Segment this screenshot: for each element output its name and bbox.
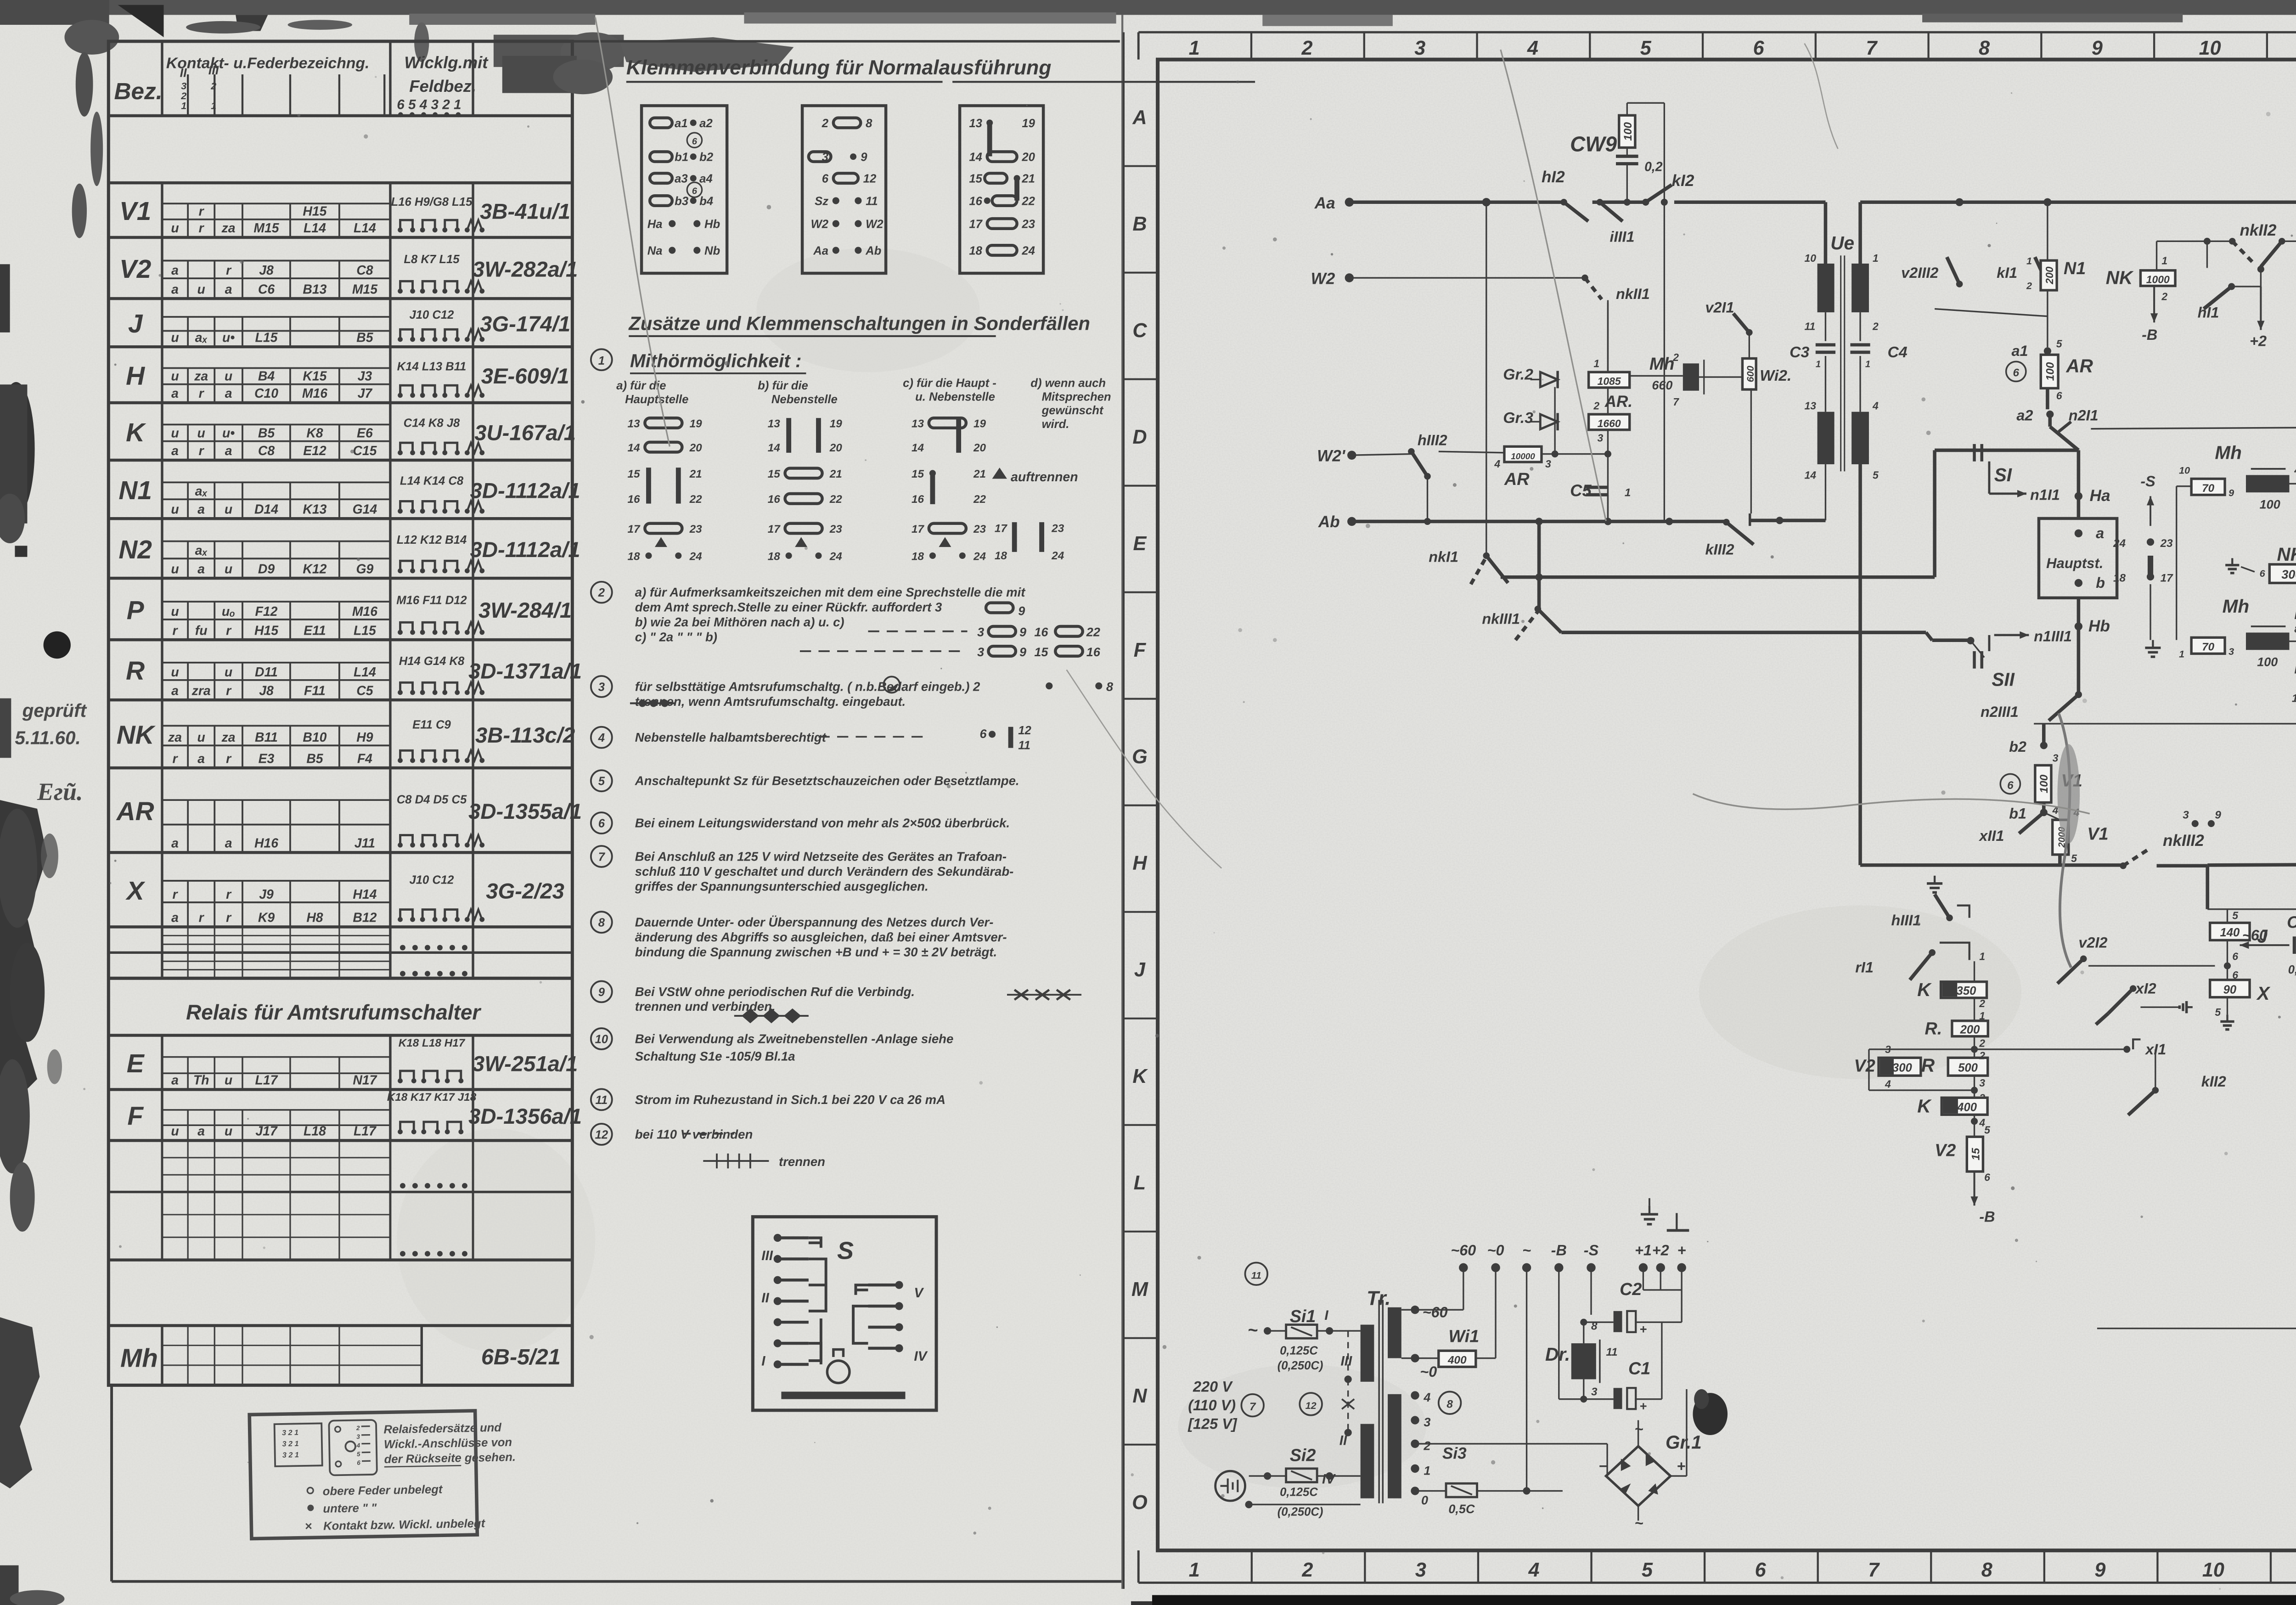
- svg-text:16: 16: [1034, 625, 1048, 639]
- svg-text:10: 10: [2202, 1559, 2224, 1581]
- svg-text:2: 2: [356, 1425, 360, 1431]
- svg-text:Relaisfedersätze und: Relaisfedersätze und: [383, 1421, 502, 1436]
- svg-text:G9: G9: [356, 562, 374, 576]
- svg-text:C: C: [1132, 320, 1147, 342]
- svg-text:5: 5: [357, 1451, 360, 1458]
- svg-text:J3: J3: [358, 369, 372, 384]
- svg-text:NK: NK: [2277, 544, 2296, 565]
- svg-text:1: 1: [1865, 359, 1870, 369]
- svg-text:3D-1112a/1: 3D-1112a/1: [470, 479, 580, 503]
- svg-text:AR: AR: [1504, 470, 1530, 489]
- svg-text:0,125C: 0,125C: [1280, 1486, 1318, 1498]
- svg-text:10: 10: [2199, 37, 2221, 59]
- svg-text:B5: B5: [306, 751, 323, 766]
- svg-text:der Rückseite gesehen.: der Rückseite gesehen.: [384, 1451, 516, 1466]
- svg-text:11: 11: [1251, 1270, 1261, 1281]
- svg-text:1: 1: [2026, 255, 2032, 266]
- svg-text:300: 300: [1892, 1062, 1913, 1075]
- svg-text:fu: fu: [195, 623, 208, 638]
- svg-text:15: 15: [628, 468, 641, 480]
- svg-text:+1: +1: [1635, 1242, 1652, 1258]
- svg-text:4: 4: [598, 732, 605, 744]
- svg-text:H15: H15: [254, 623, 279, 638]
- svg-text:70: 70: [2202, 482, 2215, 495]
- svg-text:Aa: Aa: [1314, 194, 1335, 212]
- svg-text:a: a: [225, 386, 232, 401]
- svg-text:9: 9: [2228, 487, 2234, 498]
- svg-text:9: 9: [1019, 625, 1026, 639]
- svg-text:a: a: [171, 836, 179, 851]
- svg-text:Bei Anschluß an 125 V wird N: Bei Anschluß an 125 V wird Netzseite des…: [635, 849, 1007, 863]
- svg-text:Aa: Aa: [813, 244, 828, 257]
- svg-text:90: 90: [2223, 983, 2237, 996]
- svg-text:a: a: [197, 502, 205, 517]
- svg-text:5: 5: [598, 775, 605, 788]
- svg-text:24: 24: [2113, 537, 2126, 550]
- svg-text:Ha: Ha: [2090, 487, 2110, 505]
- svg-text:24: 24: [1051, 550, 1064, 562]
- svg-text:K: K: [1917, 1096, 1932, 1117]
- svg-text:Hauptst.: Hauptst.: [2046, 555, 2103, 571]
- svg-text:(0,250C): (0,250C): [1277, 1359, 1323, 1372]
- svg-text:rI1: rI1: [1855, 959, 1874, 976]
- svg-text:b) wie 2a bei Mithören nach: b) wie 2a bei Mithören nach a) u. c): [635, 615, 844, 629]
- svg-text:kII2: kII2: [2201, 1073, 2226, 1090]
- svg-text:H: H: [126, 362, 145, 391]
- svg-text:IV: IV: [914, 1349, 928, 1364]
- svg-text:SII: SII: [1992, 669, 2015, 690]
- svg-text:a1: a1: [2012, 343, 2028, 359]
- svg-text:u: u: [171, 426, 179, 441]
- svg-text:19: 19: [830, 417, 843, 430]
- svg-text:3: 3: [1591, 1386, 1598, 1398]
- svg-text:5: 5: [1984, 1124, 1991, 1136]
- svg-text:bei 110 V ver: bei 110 V verbinden: [635, 1127, 753, 1141]
- svg-text:3: 3: [977, 625, 984, 639]
- svg-text:19: 19: [1022, 117, 1035, 130]
- svg-text:D: D: [1132, 426, 1147, 448]
- svg-text:4: 4: [1494, 458, 1500, 470]
- svg-text:10: 10: [595, 1033, 608, 1046]
- svg-text:1000: 1000: [2146, 273, 2170, 285]
- svg-text:400: 400: [1447, 1354, 1467, 1367]
- svg-text:u: u: [171, 369, 179, 384]
- svg-text:6: 6: [980, 727, 987, 741]
- svg-text:1: 1: [1189, 1559, 1200, 1581]
- svg-text:u: u: [171, 221, 179, 236]
- svg-text:J10 C12: J10 C12: [410, 309, 454, 321]
- svg-text:(0,250C): (0,250C): [1277, 1506, 1323, 1519]
- svg-text:L14: L14: [354, 221, 376, 236]
- svg-text:18: 18: [2113, 572, 2126, 585]
- svg-text:22: 22: [973, 493, 986, 506]
- svg-text:Dauernde Unter- oder Überspa: Dauernde Unter- oder Überspannung des Ne…: [635, 915, 994, 929]
- svg-text:J: J: [1134, 959, 1146, 981]
- svg-text:-S: -S: [2140, 473, 2155, 490]
- svg-text:3E-609/1: 3E-609/1: [481, 364, 569, 389]
- svg-text:14: 14: [969, 151, 982, 164]
- svg-text:+2: +2: [1652, 1242, 1669, 1258]
- svg-text:1: 1: [211, 100, 216, 112]
- svg-text:C10: C10: [254, 386, 278, 401]
- svg-text:3: 3: [2183, 809, 2189, 822]
- svg-text:8: 8: [1106, 680, 1113, 693]
- svg-text:geprüft: geprüft: [22, 700, 87, 721]
- svg-text:12: 12: [863, 173, 877, 186]
- svg-text:r: r: [226, 887, 232, 902]
- svg-text:V1: V1: [119, 197, 151, 226]
- svg-text:G14: G14: [353, 502, 377, 517]
- svg-text:21: 21: [689, 468, 702, 480]
- svg-text:NK: NK: [2106, 267, 2134, 288]
- svg-text:2: 2: [1979, 997, 1985, 1009]
- svg-text:3D-1112a/1: 3D-1112a/1: [470, 538, 580, 562]
- svg-text:17: 17: [912, 523, 925, 535]
- svg-text:19: 19: [974, 417, 986, 430]
- svg-text:V1: V1: [2087, 825, 2108, 844]
- svg-text:14: 14: [912, 442, 924, 454]
- svg-text:17: 17: [628, 523, 641, 535]
- svg-text:a1: a1: [675, 117, 688, 130]
- svg-text:21: 21: [1021, 173, 1035, 186]
- svg-text:2: 2: [1979, 1037, 1985, 1049]
- svg-text:E12: E12: [303, 444, 326, 458]
- svg-text:N1: N1: [118, 476, 152, 505]
- svg-text:18: 18: [912, 550, 924, 563]
- svg-text:H15: H15: [303, 204, 327, 219]
- svg-text:Mitsprechen: Mitsprechen: [1042, 390, 1111, 403]
- svg-text:NK: NK: [117, 721, 156, 750]
- svg-text:6: 6: [357, 1459, 360, 1466]
- svg-text:9: 9: [1018, 604, 1025, 618]
- svg-text:I: I: [1324, 1308, 1328, 1323]
- svg-text:24: 24: [829, 550, 843, 563]
- svg-text:a: a: [225, 282, 232, 297]
- svg-text:17: 17: [2161, 572, 2174, 585]
- svg-text:griffes der Spannungsuntersc: griffes der Spannungsunterschied ausgegl…: [635, 879, 929, 893]
- svg-text:F12: F12: [255, 604, 278, 619]
- svg-text:Zusätze und Klemmenschaltungen: Zusätze und Klemmenschaltungen in Sonder…: [628, 312, 1090, 334]
- svg-text:B13: B13: [303, 282, 326, 297]
- svg-text:Wickl.-Anschlüsse von: Wickl.-Anschlüsse von: [384, 1436, 512, 1451]
- svg-text:H: H: [1132, 852, 1147, 874]
- svg-text:u: u: [171, 330, 179, 345]
- svg-text:3B-41u/1: 3B-41u/1: [480, 199, 570, 224]
- svg-text:100: 100: [1622, 122, 1634, 141]
- svg-text:a: a: [171, 263, 179, 278]
- svg-text:~60: ~60: [2242, 927, 2268, 943]
- svg-text:C6: C6: [258, 282, 275, 297]
- svg-text:N17: N17: [353, 1073, 377, 1088]
- svg-text:8: 8: [1981, 1559, 1992, 1581]
- svg-text:Dr.: Dr.: [1545, 1344, 1570, 1365]
- svg-text:4: 4: [1423, 1391, 1430, 1404]
- svg-text:~: ~: [1522, 1242, 1531, 1258]
- svg-text:Mh: Mh: [2215, 442, 2241, 463]
- svg-text:11: 11: [1018, 739, 1030, 752]
- svg-text:5.11.60.: 5.11.60.: [15, 727, 80, 749]
- svg-text:7: 7: [1249, 1401, 1256, 1413]
- svg-text:Klemmenverbindung für Normal: Klemmenverbindung für Normalausführung: [626, 56, 1052, 79]
- svg-text:Si1: Si1: [1290, 1307, 1316, 1326]
- svg-text:-S: -S: [1584, 1242, 1599, 1258]
- svg-text:v2III2: v2III2: [1901, 265, 1938, 281]
- svg-text:16: 16: [1086, 645, 1101, 659]
- svg-text:L12 K12 B14: L12 K12 B14: [397, 534, 467, 546]
- svg-text:3 2 1: 3 2 1: [282, 1440, 298, 1448]
- svg-text:a: a: [171, 386, 179, 401]
- svg-text:L16 H9/G8 L15: L16 H9/G8 L15: [391, 196, 473, 208]
- svg-text:6: 6: [2007, 779, 2014, 792]
- svg-text:200: 200: [1960, 1024, 1981, 1036]
- svg-text:c) für die Haupt -: c) für die Haupt -: [903, 377, 996, 390]
- svg-text:B5: B5: [356, 330, 373, 345]
- svg-text:3: 3: [356, 1433, 360, 1440]
- svg-text:2: 2: [1301, 37, 1313, 59]
- svg-text:K8: K8: [306, 426, 323, 441]
- svg-text:kI2: kI2: [1672, 172, 1694, 190]
- svg-text:E11: E11: [304, 623, 326, 638]
- svg-text:E11 C9: E11 C9: [412, 718, 451, 731]
- svg-text:u: u: [171, 604, 179, 619]
- svg-text:3W-251a/1: 3W-251a/1: [473, 1052, 578, 1076]
- svg-text:nkIII1: nkIII1: [1482, 611, 1520, 627]
- svg-text:2: 2: [2026, 280, 2032, 291]
- svg-text:r: r: [226, 263, 232, 278]
- svg-text:6: 6: [692, 186, 698, 197]
- svg-text:a4: a4: [699, 173, 713, 186]
- svg-text:Kontakt- u.Federbezeichng.: Kontakt- u.Federbezeichng.: [166, 55, 370, 72]
- svg-text:Wicklg.mit: Wicklg.mit: [404, 53, 489, 72]
- svg-text:14: 14: [1805, 469, 1817, 481]
- svg-text:2: 2: [1672, 351, 1679, 363]
- svg-text:III: III: [208, 63, 219, 77]
- svg-text:11: 11: [1606, 1346, 1617, 1358]
- svg-text:Eгũ.: Eгũ.: [37, 778, 83, 805]
- svg-text:24: 24: [1021, 244, 1035, 257]
- svg-text:4: 4: [356, 1442, 360, 1449]
- svg-text:C8: C8: [356, 263, 373, 278]
- svg-text:xI2: xI2: [2135, 980, 2156, 997]
- svg-text:1: 1: [2161, 254, 2167, 266]
- svg-text:8: 8: [1979, 37, 1990, 59]
- svg-text:13: 13: [768, 417, 781, 430]
- svg-text:kI1: kI1: [1997, 265, 2017, 281]
- svg-text:6: 6: [822, 173, 829, 186]
- svg-text:W2: W2: [811, 218, 828, 231]
- svg-text:M16: M16: [302, 386, 327, 401]
- svg-text:c) " 2a " ": c) " 2a " " " b): [635, 630, 717, 644]
- svg-text:M: M: [1131, 1278, 1148, 1301]
- svg-text:gewünscht: gewünscht: [1041, 404, 1104, 417]
- svg-text:F11: F11: [304, 683, 326, 698]
- svg-text:3U-167a/1: 3U-167a/1: [474, 421, 576, 445]
- svg-text:2: 2: [822, 117, 828, 130]
- svg-text:8: 8: [2294, 623, 2296, 635]
- svg-text:16: 16: [628, 493, 641, 506]
- svg-text:Ab: Ab: [865, 244, 881, 257]
- svg-text:L14: L14: [304, 221, 326, 236]
- svg-text:17: 17: [969, 218, 983, 231]
- svg-text:a: a: [171, 683, 179, 698]
- svg-text:u: u: [171, 562, 179, 576]
- svg-text:Si2: Si2: [1290, 1446, 1316, 1465]
- svg-text:III: III: [1340, 1354, 1352, 1369]
- svg-text:Nb: Nb: [704, 244, 720, 257]
- svg-text:70: 70: [2202, 641, 2215, 653]
- svg-text:5: 5: [1642, 1559, 1653, 1581]
- svg-text:2: 2: [2161, 291, 2167, 303]
- svg-text:2: 2: [598, 586, 605, 599]
- svg-text:19: 19: [2292, 693, 2296, 705]
- svg-text:aₓ: aₓ: [195, 543, 208, 558]
- svg-text:15: 15: [768, 468, 781, 480]
- svg-text:1085: 1085: [1598, 375, 1621, 387]
- svg-text:3G-2/23: 3G-2/23: [486, 879, 564, 903]
- svg-text:400: 400: [1957, 1101, 1977, 1114]
- svg-text:D11: D11: [255, 665, 278, 680]
- svg-text:r: r: [173, 623, 179, 638]
- svg-text:6B-5/21: 6B-5/21: [481, 1345, 561, 1369]
- svg-text:100: 100: [2257, 655, 2278, 669]
- svg-text:C14 K8 J8: C14 K8 J8: [404, 417, 460, 430]
- svg-text:23: 23: [1021, 218, 1035, 231]
- svg-text:F: F: [127, 1102, 144, 1131]
- svg-text:100: 100: [2260, 497, 2280, 511]
- svg-text:b2: b2: [2009, 738, 2026, 755]
- svg-text:O: O: [1132, 1492, 1148, 1514]
- svg-text:5: 5: [2232, 909, 2239, 921]
- svg-text:za: za: [168, 730, 182, 745]
- svg-text:D9: D9: [258, 562, 275, 576]
- svg-text:a: a: [225, 836, 232, 851]
- svg-text:C5: C5: [356, 683, 373, 698]
- svg-text:Gr.2: Gr.2: [1503, 366, 1533, 383]
- svg-text:r: r: [226, 683, 232, 698]
- svg-text:23: 23: [2160, 537, 2173, 550]
- svg-text:b) für die: b) für die: [758, 379, 808, 392]
- svg-text:u: u: [171, 665, 179, 680]
- svg-text:6: 6: [1984, 1171, 1990, 1183]
- svg-text:Hb: Hb: [704, 218, 720, 231]
- svg-text:3G-174/1: 3G-174/1: [480, 312, 570, 337]
- svg-text:4: 4: [2294, 465, 2296, 476]
- svg-text:B4: B4: [258, 369, 275, 384]
- svg-text:J8: J8: [259, 263, 274, 278]
- svg-text:B12: B12: [353, 911, 377, 925]
- svg-text:1: 1: [2179, 648, 2184, 659]
- svg-text:J11: J11: [355, 836, 375, 851]
- svg-text:K: K: [126, 418, 146, 447]
- svg-text:300: 300: [2281, 568, 2296, 581]
- svg-text:7: 7: [598, 850, 606, 863]
- svg-text:untere " ": untere " ": [323, 1502, 377, 1515]
- svg-text:J17: J17: [255, 1124, 278, 1139]
- svg-text:b1: b1: [2009, 805, 2026, 822]
- svg-text:15: 15: [1034, 645, 1048, 659]
- svg-text:B5: B5: [258, 426, 275, 441]
- svg-text:u: u: [171, 502, 179, 517]
- svg-text:v2I1: v2I1: [1705, 299, 1734, 316]
- svg-text:7: 7: [1673, 396, 1679, 408]
- svg-text:2: 2: [1979, 1050, 1985, 1062]
- svg-text:10: 10: [1805, 252, 1817, 264]
- svg-text:AR: AR: [116, 797, 154, 826]
- svg-text:5: 5: [2071, 852, 2077, 864]
- svg-text:18: 18: [768, 550, 781, 563]
- svg-text:22: 22: [829, 493, 843, 506]
- svg-text:nkII2: nkII2: [2240, 221, 2276, 239]
- svg-text:1: 1: [1424, 1464, 1430, 1477]
- svg-text:R: R: [126, 657, 145, 686]
- svg-text:20: 20: [1021, 151, 1035, 164]
- svg-text:B11: B11: [255, 730, 278, 745]
- svg-text:14: 14: [768, 442, 781, 454]
- svg-text:11: 11: [866, 195, 878, 208]
- svg-text:1: 1: [1816, 359, 1821, 369]
- svg-text:6: 6: [2260, 568, 2266, 579]
- svg-text:5: 5: [2056, 338, 2063, 349]
- svg-text:trennen, wenn Amtsrufumschaltg: trennen, wenn Amtsrufumschaltg. eingebau…: [635, 694, 906, 709]
- svg-text:b3: b3: [675, 195, 688, 208]
- svg-text:6: 6: [598, 817, 605, 830]
- svg-text:E6: E6: [357, 426, 373, 441]
- svg-text:a2: a2: [699, 117, 713, 130]
- svg-text:3B-113c/2: 3B-113c/2: [475, 723, 575, 748]
- svg-text:a2: a2: [2016, 407, 2033, 424]
- svg-text:100: 100: [2038, 774, 2050, 793]
- svg-text:H9: H9: [356, 730, 373, 745]
- svg-text:-B: -B: [1551, 1242, 1567, 1258]
- svg-text:Strom im Ruhezustand in Si: Strom im Ruhezustand in Sich.1 bei 220 V…: [635, 1093, 945, 1107]
- svg-text:23: 23: [689, 523, 703, 535]
- svg-text:3: 3: [598, 681, 605, 693]
- svg-text:G: G: [1132, 746, 1148, 768]
- svg-text:u: u: [197, 282, 205, 297]
- svg-text:+2: +2: [2250, 333, 2267, 349]
- svg-text:1660: 1660: [1598, 417, 1621, 429]
- svg-text:12: 12: [1018, 724, 1031, 737]
- svg-text:3: 3: [977, 645, 984, 659]
- svg-text:V: V: [914, 1285, 924, 1301]
- svg-text:0,05: 0,05: [2288, 963, 2296, 976]
- svg-text:660: 660: [1652, 378, 1672, 392]
- svg-text:X: X: [2256, 983, 2271, 1004]
- svg-text:S: S: [837, 1237, 854, 1264]
- svg-text:−: −: [1598, 1458, 1607, 1474]
- svg-text:AR: AR: [2065, 355, 2093, 376]
- svg-text:×: ×: [304, 1519, 312, 1533]
- svg-text:L17: L17: [255, 1073, 278, 1088]
- svg-text:5: 5: [1640, 37, 1652, 59]
- svg-text:N2: N2: [118, 535, 152, 564]
- svg-text:V2: V2: [1854, 1057, 1875, 1076]
- svg-text:dem Amt sprech.Stelle zu einer: dem Amt sprech.Stelle zu einer Rückfr. a…: [635, 600, 942, 614]
- svg-text:3: 3: [2053, 752, 2059, 764]
- svg-text:a) für Aufmerksamkeitszeichen: a) für Aufmerksamkeitszeichen mit dem ei…: [635, 585, 1026, 599]
- svg-text:L18: L18: [304, 1124, 326, 1139]
- svg-text:a: a: [171, 1073, 179, 1088]
- svg-text:r: r: [226, 751, 232, 766]
- svg-text:Mh: Mh: [1649, 355, 1675, 374]
- svg-text:Feldbez.: Feldbez.: [409, 77, 476, 96]
- svg-text:15: 15: [912, 468, 924, 480]
- svg-text:17: 17: [995, 523, 1008, 535]
- svg-text:Hauptstelle: Hauptstelle: [625, 393, 688, 406]
- svg-text:13: 13: [1805, 400, 1817, 411]
- svg-text:8: 8: [598, 917, 605, 929]
- svg-text:1: 1: [181, 100, 186, 112]
